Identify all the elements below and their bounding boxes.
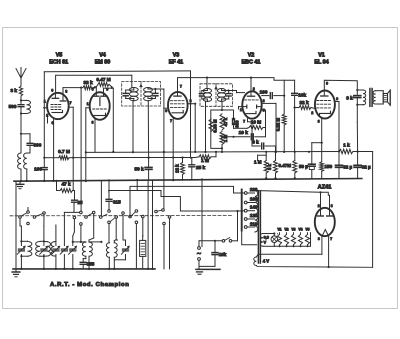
speaker — [382, 91, 384, 104]
wire V3 screen right — [188, 103, 196, 105]
V4 grid dashes — [93, 108, 107, 110]
resistor 47k — [60, 189, 73, 193]
AC input — [198, 247, 201, 250]
svg-text:7: 7 — [70, 101, 72, 105]
AZ41 cathode V — [322, 230, 329, 237]
svg-text:9: 9 — [326, 82, 328, 86]
svg-text:0.47 M: 0.47 M — [96, 77, 110, 82]
heater last leg — [310, 233, 312, 247]
rail D trimmer — [63, 212, 65, 245]
svg-text:47 k: 47 k — [223, 117, 228, 126]
svg-text:5 k: 5 k — [267, 163, 272, 169]
svg-text:7: 7 — [243, 120, 245, 124]
wire 4V bottom — [256, 266, 372, 268]
PT shield bar — [241, 190, 243, 231]
V3 cathode — [172, 112, 183, 114]
rail C trimmer — [55, 225, 57, 246]
wire ant node — [20, 96, 22, 100]
svg-text:V5: V5 — [56, 53, 63, 59]
bottom-left ground bus — [13, 268, 155, 270]
wire V4 right down — [112, 87, 114, 89]
svg-text:9: 9 — [336, 97, 338, 101]
svg-text:V2: V2 — [248, 53, 255, 59]
wire V4 pin3 down — [94, 119, 96, 124]
svg-text:7: 7 — [92, 88, 94, 92]
capacitor 32u first — [338, 152, 340, 165]
svg-text:8: 8 — [331, 204, 333, 208]
resistor 1M vert a — [257, 155, 259, 160]
resistor 0.22M — [282, 114, 286, 125]
wire V2 cathode down — [247, 119, 249, 122]
svg-text:V1: V1 — [277, 227, 281, 231]
wire 0.47M right — [109, 84, 112, 86]
svg-text:1 M: 1 M — [223, 135, 228, 143]
capacitor 390 top-left — [21, 133, 30, 135]
OT secondary — [373, 91, 376, 104]
svg-text:3 k: 3 k — [346, 95, 353, 100]
wire x164b down — [163, 152, 165, 209]
resistor 33k — [83, 86, 93, 90]
svg-text:A.R.T. - Mod. Champion: A.R.T. - Mod. Champion — [50, 282, 129, 288]
wire V1 cathode down — [321, 118, 323, 142]
V4 cathode — [94, 115, 106, 117]
heater top wire — [277, 233, 279, 235]
switch contact a — [19, 216, 22, 219]
svg-text:50 µ: 50 µ — [299, 164, 308, 169]
coil bank pair1 — [21, 240, 27, 242]
V2 cathode — [246, 113, 256, 115]
wire V5 pin7 right — [69, 106, 74, 108]
svg-text:50 k: 50 k — [134, 167, 144, 172]
svg-text:6: 6 — [51, 89, 53, 93]
svg-text:390: 390 — [234, 120, 239, 128]
wire x142 down — [142, 218, 144, 236]
svg-text:33 k: 33 k — [83, 80, 93, 85]
wire 1M bottom — [221, 145, 223, 152]
wire x195 down — [194, 104, 196, 152]
svg-text:EF 41: EF 41 — [169, 60, 183, 66]
capacitor 390 vert — [222, 109, 234, 111]
IFT2 out right — [227, 89, 229, 91]
wire x202 down — [201, 180, 203, 247]
resistor 0.47M top — [98, 82, 109, 86]
trimmer osc — [123, 248, 129, 250]
svg-text:~: ~ — [197, 249, 201, 258]
bus B+ — [86, 151, 339, 154]
svg-text:100: 100 — [260, 89, 268, 94]
svg-text:8: 8 — [65, 90, 67, 94]
bus B ECH81 plate — [56, 75, 132, 93]
IFT1 divider arrow — [140, 82, 142, 106]
resistor 5k vert b — [274, 161, 278, 174]
svg-text:V4: V4 — [99, 53, 106, 59]
wire x152 down — [152, 180, 154, 269]
resistor 3k antenna — [19, 86, 22, 96]
IFT1 coil left — [129, 88, 138, 92]
wire x148 down — [147, 180, 149, 269]
coil bank pair2 — [44, 241, 47, 243]
svg-text:4 V: 4 V — [263, 258, 269, 263]
rail E trimmer — [72, 236, 74, 246]
svg-text:6,3: 6,3 — [264, 236, 269, 240]
svg-text:0.7 M: 0.7 M — [58, 149, 70, 154]
capacitor 3k — [252, 145, 260, 147]
PT core — [257, 191, 259, 263]
OT core — [369, 89, 371, 107]
wire x284 down — [283, 80, 285, 114]
switch contact b — [33, 216, 36, 219]
rail x44 — [43, 72, 45, 108]
IFT2 cap right — [226, 93, 231, 95]
wire V4 pin1 left down — [86, 107, 90, 109]
resistor 22k — [295, 107, 299, 109]
wire plate corner — [251, 78, 295, 81]
svg-text:2: 2 — [318, 204, 320, 208]
wire 4V top — [256, 254, 322, 257]
coil osc — [106, 243, 109, 257]
IFT2 coil left — [203, 89, 211, 93]
ground bus dots — [20, 180, 22, 182]
switch contact d — [85, 216, 88, 219]
svg-text:2: 2 — [311, 111, 313, 115]
svg-text:3: 3 — [263, 99, 265, 103]
wire antenna down — [20, 114, 22, 154]
svg-text:1: 1 — [87, 102, 89, 106]
wire OT bottom down — [356, 105, 358, 122]
svg-text:3 k: 3 k — [10, 88, 17, 93]
wire sw d down — [93, 214, 95, 238]
wire mains line1 — [109, 180, 137, 191]
svg-text:1: 1 — [240, 108, 242, 112]
tube AZ41 — [315, 208, 335, 236]
wire sw c down — [64, 211, 79, 213]
svg-text:V2: V2 — [284, 227, 288, 231]
bus A screen — [44, 70, 190, 73]
AZ41 anode bars — [318, 215, 324, 217]
IFT1 dashed box — [122, 82, 161, 106]
svg-text:ECH 81: ECH 81 — [49, 60, 68, 66]
switch contact c — [73, 216, 76, 219]
V2 grid dashes — [245, 99, 259, 101]
svg-text:1 M: 1 M — [201, 158, 209, 163]
svg-text:6: 6 — [318, 237, 320, 241]
V1 anode bar — [321, 95, 328, 97]
tube V2 EBC41 — [242, 91, 261, 118]
capacitor 32u second — [357, 152, 359, 165]
V2 diode plates — [246, 105, 248, 108]
wire IFT2 right coil down — [221, 106, 223, 110]
IFT2 dashed box — [200, 84, 233, 107]
V2 anode bar — [247, 95, 254, 97]
coil antenna primary — [18, 153, 21, 169]
resistor 1k — [339, 149, 353, 153]
tube V3 EF41 — [168, 92, 188, 119]
svg-text:V3: V3 — [173, 53, 180, 59]
wire mains line3 — [130, 186, 244, 216]
svg-text:V3: V3 — [291, 227, 295, 231]
svg-text:3 k: 3 k — [252, 139, 259, 144]
ground symbol bottom left — [15, 269, 17, 272]
svg-text:5: 5 — [263, 109, 265, 113]
wire AZ41 pin7 down — [328, 236, 330, 267]
switch to PT — [232, 240, 238, 242]
svg-text:V: V — [264, 241, 267, 245]
wire ant pri to ground — [20, 169, 22, 181]
switch contact e — [99, 216, 102, 219]
svg-text:6: 6 — [165, 109, 167, 113]
loop left — [211, 110, 222, 148]
mains ground — [196, 268, 220, 270]
V5 grid dashes — [51, 104, 62, 106]
tube V5 ECH81 — [47, 93, 69, 119]
tube V1 EL84 — [315, 91, 335, 119]
svg-text:2: 2 — [253, 87, 255, 91]
svg-text:355: 355 — [87, 262, 95, 267]
V1 grid dashes — [317, 100, 331, 102]
switch contact f — [108, 210, 111, 213]
svg-text:3: 3 — [318, 120, 320, 124]
ground symbol left — [19, 181, 21, 184]
svg-text:AZ41: AZ41 — [318, 185, 332, 191]
switch dashed line — [10, 215, 232, 217]
IFT1 out to EF41 grid — [163, 89, 165, 108]
svg-text:390: 390 — [34, 143, 42, 148]
wire right edge down — [372, 152, 374, 268]
coil antenna shunt — [21, 99, 27, 101]
switch contact g — [129, 215, 132, 218]
antenna — [20, 78, 22, 86]
wire x116 down — [115, 218, 117, 239]
wire 33k right — [93, 87, 95, 89]
wire V5 grid1 left — [44, 107, 47, 109]
wire 6.3 top — [263, 233, 274, 235]
resistor 150 — [320, 162, 324, 172]
svg-text:0.47M: 0.47M — [279, 163, 292, 168]
svg-text:10 k: 10 k — [239, 130, 249, 135]
capacitor 10k mains — [214, 241, 216, 252]
IFT2 cap left — [199, 93, 204, 95]
V5 anode bars — [52, 97, 58, 99]
resistor 47k vert — [220, 114, 224, 130]
resistor 10M — [249, 126, 263, 130]
svg-text:V4: V4 — [298, 227, 302, 231]
svg-text:22 k: 22 k — [299, 100, 309, 105]
wire left edge rail — [15, 181, 17, 269]
svg-text:22 k: 22 k — [175, 164, 180, 173]
resistor 0.7M — [44, 157, 58, 159]
coil antenna secondary — [29, 146, 31, 153]
PT 6.3V winding — [260, 234, 263, 247]
rail x190 down — [190, 71, 192, 104]
tube V4 EM80 — [90, 92, 110, 120]
svg-text:100: 100 — [34, 167, 42, 172]
svg-text:V1: V1 — [318, 53, 325, 59]
svg-text:500: 500 — [9, 104, 17, 109]
wire osc grid long — [80, 88, 82, 212]
IFT1 right wiring — [147, 88, 149, 90]
IFT2 bottom wires — [205, 102, 207, 107]
wire V5 pin2 stub — [47, 118, 49, 124]
V4 anode bars — [94, 95, 99, 97]
wire AC top to switch — [198, 241, 200, 247]
switch contact h — [155, 210, 158, 213]
svg-text:10k: 10k — [219, 252, 227, 257]
IFT2 left wiring — [206, 84, 208, 89]
wire 47k right — [73, 190, 75, 192]
padder rect — [140, 240, 146, 256]
wire AZ41 pin6 down — [321, 236, 323, 254]
wire 390 to 10M — [234, 127, 248, 129]
wire x294 down with 10k cap — [294, 80, 296, 93]
wire x101 down — [100, 181, 102, 216]
svg-text:25 k: 25 k — [196, 165, 206, 170]
wire mains line2 — [137, 191, 244, 212]
svg-text:315: 315 — [113, 199, 121, 204]
svg-text:32 µ: 32 µ — [362, 164, 371, 169]
IFT1 coil right — [144, 88, 153, 92]
wire x170 down — [169, 218, 171, 269]
wire V1 g2 right down — [335, 101, 339, 103]
wire grid cap 10k — [232, 136, 234, 138]
svg-text:47 k: 47 k — [61, 182, 71, 187]
wire V5 pin3 down — [53, 119, 55, 124]
IFT2 coil right — [217, 89, 225, 93]
svg-text:V5: V5 — [305, 227, 309, 231]
wire V5 pin8 up to 33k — [62, 88, 64, 101]
capacitor 3k OT — [356, 89, 358, 91]
OT primary — [357, 89, 363, 91]
IFT1 left wiring — [125, 90, 127, 93]
resistor 0.33M — [209, 119, 213, 132]
heater return — [263, 245, 274, 247]
wire osc top — [116, 239, 117, 241]
coil bank pair3 — [73, 241, 86, 243]
wire V1 plate up — [324, 80, 357, 91]
svg-text:7: 7 — [170, 119, 172, 123]
wire 50u branch — [312, 142, 322, 144]
svg-text:25: 25 — [78, 200, 83, 205]
heater filaments — [277, 234, 281, 244]
rail B trimmer — [43, 214, 45, 226]
AZ41 anode wiring — [255, 191, 330, 209]
PT 4V winding — [254, 257, 257, 266]
svg-text:7: 7 — [330, 237, 332, 241]
wire x109 below — [108, 224, 110, 242]
wire x164 avc — [163, 108, 165, 152]
wire V2 grid left — [239, 106, 243, 108]
resistor 047M vert c — [293, 161, 297, 174]
bus B2 EF41 plate — [178, 78, 252, 93]
IFT2 divider — [215, 84, 217, 107]
capacitor 25k x190 — [190, 104, 192, 158]
wire x137 down — [135, 224, 137, 269]
wire 1k right — [353, 151, 373, 153]
bus AVC y157.6 — [73, 157, 195, 159]
svg-text:EL 84: EL 84 — [314, 60, 328, 66]
IFT1 cap left — [123, 92, 128, 94]
V3 anode bar — [174, 95, 181, 97]
wire pin3 x276 — [262, 102, 276, 104]
capacitor 355 — [85, 256, 87, 258]
capacitor 100 — [262, 95, 269, 97]
svg-text:32 µ: 32 µ — [343, 164, 352, 169]
rail A trimmer — [19, 218, 21, 226]
capacitor 50k — [148, 158, 150, 167]
svg-text:3: 3 — [92, 120, 94, 124]
svg-text:7: 7 — [180, 84, 182, 88]
svg-text:EM 80: EM 80 — [95, 60, 111, 66]
capacitor 25 — [72, 199, 78, 201]
V3 grid dashes — [171, 100, 185, 102]
svg-text:10k: 10k — [298, 92, 306, 97]
power switch — [222, 240, 225, 243]
capacitor 500 — [18, 104, 24, 106]
resistor 1M horiz — [199, 155, 211, 159]
resistor 22k vert x182 — [181, 163, 185, 175]
capacitor 50u electro — [309, 163, 316, 165]
svg-text:0.33 M: 0.33 M — [213, 119, 218, 133]
svg-text:1 k: 1 k — [343, 143, 350, 148]
PT primary winding — [255, 191, 258, 233]
wire x109 rail — [108, 180, 110, 199]
V5 cathode — [52, 112, 63, 114]
ground bus — [14, 179, 362, 182]
svg-text:150: 150 — [325, 164, 333, 169]
resistor 1M vert — [220, 132, 224, 145]
pilot lamp — [271, 236, 278, 243]
IFT1 cap right — [153, 92, 158, 94]
wire 0.47M left — [95, 87, 97, 93]
wire IFT2 left coil down — [205, 106, 207, 152]
V4 target bar — [99, 98, 101, 106]
wire V3 cathode down — [172, 118, 174, 157]
V1 cathode — [320, 111, 331, 116]
svg-text:EBC 41: EBC 41 — [242, 60, 261, 66]
